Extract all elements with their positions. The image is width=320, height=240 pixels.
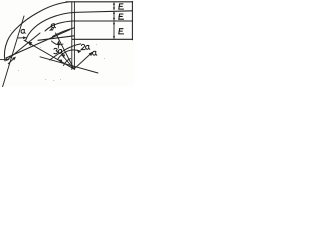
- duct right end border: [131, 1, 133, 39]
- E arrow band3: [113, 22, 115, 39]
- scan speckles: [10, 30, 105, 81]
- origin leader arrow: [0, 59, 9, 61]
- E arrow band1: [113, 3, 115, 10]
- fan ray 2: [62, 55, 75, 70]
- long fan ray arrowhead: [28, 42, 33, 46]
- fan ray up-right: [74, 53, 92, 70]
- bend arc 2: [25, 13, 74, 42]
- origin tick arrow: [8, 58, 15, 65]
- up-right ray arrowhead: [89, 52, 93, 56]
- fan ray 3 arrowhead: [58, 60, 62, 63]
- paper background: [0, 0, 134, 87]
- fan ray 1 to vertex: [56, 33, 75, 69]
- fan ray 3: [59, 60, 75, 69]
- straight ray tangent to outer arc down to bottom-left corner: [3, 16, 25, 87]
- duct wall 3: [72, 20, 133, 22]
- fan angle arc mid: [58, 50, 81, 60]
- label E band2: [119, 14, 124, 19]
- fan long ray to upper-left: [24, 40, 74, 69]
- main ray from origin: [6, 30, 70, 59]
- flange double line a: [71, 2, 73, 70]
- fan angle arc small: [64, 59, 71, 66]
- label alpha2: [51, 24, 55, 28]
- label E band1: [119, 4, 124, 9]
- alpha2 pointer arrow: [51, 29, 55, 31]
- label E band3: [119, 29, 124, 34]
- small angle arc below vertex: [52, 41, 64, 45]
- bend arc 3: [45, 21, 72, 31]
- fan ray 2 arrowhead: [61, 54, 65, 58]
- duct top wall: [66, 1, 133, 3]
- duct wall 4: [72, 38, 133, 40]
- label alpha1: [21, 29, 25, 33]
- steep ray from origin: [7, 33, 40, 60]
- 3a arrow up to vertex: [57, 41, 60, 45]
- duct wall 2: [74, 11, 133, 13]
- arrowheads: [0, 2, 115, 64]
- flange double line b: [73, 2, 75, 70]
- outer bend arc: [4, 2, 68, 61]
- label 2alpha: [81, 44, 85, 49]
- bottom fan of rays: [24, 33, 98, 73]
- inner wall line: [38, 36, 74, 41]
- fan shallow long ray: [40, 57, 98, 73]
- label 3alpha: [54, 48, 58, 53]
- angle-arc arrowhead near 2alpha: [77, 50, 81, 54]
- fan angle arc large: [50, 44, 81, 60]
- alpha1 pointer arrow: [18, 37, 25, 39]
- label alpha3: [93, 51, 97, 55]
- E arrow band2: [113, 11, 115, 20]
- bend arc 4: [53, 28, 75, 37]
